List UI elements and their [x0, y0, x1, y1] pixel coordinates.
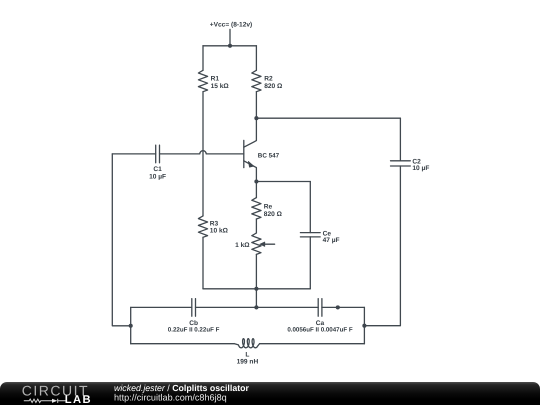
potentiometer wiper arrow — [264, 243, 275, 245]
wire pot bottom lead — [255, 254, 257, 288]
svg-text:47 µF: 47 µF — [323, 237, 340, 244]
svg-text:LAB: LAB — [65, 394, 92, 405]
wire Vcc stub — [229, 29, 231, 45]
wire R2 top lead — [255, 46, 257, 71]
wire tank top right segment — [322, 306, 365, 308]
wire tank top left segment — [131, 306, 192, 308]
svg-text:10 µF: 10 µF — [412, 165, 429, 172]
node C1 return junction — [129, 324, 133, 328]
resistor R1 — [198, 70, 207, 91]
resistor R3 — [198, 216, 207, 237]
node collector junction — [254, 116, 258, 120]
inductor L — [234, 339, 259, 348]
wire C2 top lead — [399, 118, 401, 161]
wire collector rail to C2 — [256, 117, 400, 119]
node Vcc junction — [228, 44, 232, 48]
logo resistor glyph — [24, 399, 66, 403]
svg-text:0.22uF II 0.22uF F: 0.22uF II 0.22uF F — [168, 327, 220, 334]
footer bar — [0, 382, 540, 405]
svg-text:10 kΩ: 10 kΩ — [210, 228, 229, 235]
svg-text:R2: R2 — [264, 76, 273, 83]
transistor Q1 emitter lead — [244, 161, 257, 182]
svg-text:R1: R1 — [211, 76, 220, 83]
capacitor Ce — [300, 233, 320, 237]
svg-text:+Vcc= (8-12v): +Vcc= (8-12v) — [210, 21, 253, 28]
node tank top junction — [254, 305, 258, 309]
wire tank left side — [130, 307, 132, 343]
wire R3 bottom lead — [202, 237, 204, 288]
svg-text:R3: R3 — [210, 220, 219, 227]
resistor Re — [252, 198, 261, 219]
transistor Q1 emitter arrow — [248, 161, 254, 167]
svg-text:C1: C1 — [153, 166, 162, 173]
svg-text:0.0056uF II 0.0047uF F: 0.0056uF II 0.0047uF F — [287, 327, 353, 334]
transistor Q1 base bar — [243, 140, 245, 167]
svg-text:http://circuitlab.com/c8h6j8q: http://circuitlab.com/c8h6j8q — [114, 393, 227, 403]
wire tank right side — [363, 307, 365, 343]
wire C2 bottom lead — [364, 166, 400, 326]
potentiometer R 1k — [252, 233, 261, 254]
wire R1 top lead — [202, 46, 204, 71]
svg-text:199 nH: 199 nH — [237, 358, 259, 365]
wire Ce bottom lead — [309, 237, 311, 289]
wire top rail — [203, 45, 256, 47]
wire Ce top lead — [309, 182, 311, 233]
svg-text:820 Ω: 820 Ω — [264, 83, 283, 90]
wire tank bottom right segment — [260, 343, 365, 345]
wire emitter junction to Ce — [256, 181, 310, 183]
svg-text:BC 547: BC 547 — [258, 152, 280, 159]
capacitor C1 — [156, 145, 160, 163]
svg-text:820 Ω: 820 Ω — [264, 211, 283, 218]
node tank top right of Ca — [336, 305, 340, 309]
transistor Q1 collector lead — [244, 118, 257, 147]
wire tank connector — [255, 289, 257, 308]
svg-text:15 kΩ: 15 kΩ — [211, 83, 230, 90]
node bottom rail junction — [254, 287, 258, 291]
wire Re top lead — [255, 182, 257, 198]
node C2 return junction — [362, 324, 366, 328]
wire C1 return left side — [112, 154, 130, 326]
node emitter junction — [254, 179, 258, 183]
wire bottom rail — [203, 288, 310, 290]
capacitor Ca — [318, 299, 322, 317]
svg-text:Re: Re — [264, 204, 273, 211]
svg-text:10 µF: 10 µF — [149, 173, 166, 180]
svg-text:1 kΩ: 1 kΩ — [235, 242, 250, 249]
resistor R2 — [252, 70, 261, 91]
wire C1 left lead — [112, 153, 155, 155]
wire base with hop over R1-R3 line — [160, 151, 244, 154]
capacitor C2 — [391, 161, 411, 166]
wire R1 to R3 — [202, 92, 204, 216]
capacitor Cb — [192, 299, 196, 317]
wire tank top middle segment — [196, 306, 319, 308]
wire Re to pot — [255, 219, 257, 233]
wire R2 bottom lead — [255, 92, 257, 119]
wire tank bottom left segment — [131, 343, 234, 345]
